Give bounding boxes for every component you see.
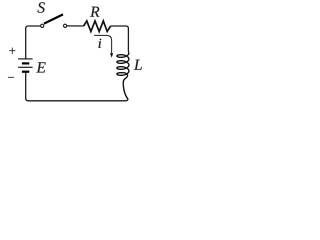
switch S right contact [64,24,67,27]
current arrow i [94,35,111,53]
wire top-left (corner to switch) [26,26,41,59]
label R [90,7,99,17]
battery + sign [9,48,15,54]
switch S blade [44,14,63,23]
battery E plate 4 short [22,71,29,73]
bottom wire and left wire up to battery [26,72,128,101]
battery E plate 1 long (+) [18,58,32,60]
switch S left contact [41,24,44,27]
inductor exit hook and wire to bottom-right corner [123,72,128,99]
battery E plate 3 long [18,66,32,68]
resistor R zigzag [84,21,111,32]
inductor L coil [117,53,129,75]
label i [99,39,102,48]
wire resistor to top-right corner down to coil [111,26,129,53]
battery E plate 2 short [22,62,29,64]
battery - sign [8,63,14,92]
label S [38,2,45,12]
label E [36,62,45,72]
wire switch to resistor [67,25,84,27]
label L [134,60,142,70]
